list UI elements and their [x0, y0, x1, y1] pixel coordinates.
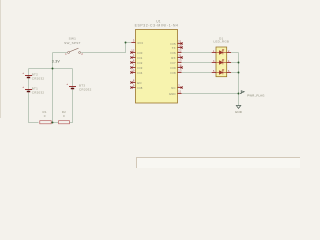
- title block corner: [137, 158, 302, 170]
- svg-text:22: 22: [178, 49, 182, 53]
- IC right pin IO5 (nc): [171, 40, 183, 46]
- svg-text:IO1: IO1: [137, 56, 142, 60]
- node junction at 3V3 corner: [125, 42, 127, 44]
- svg-text:IO4: IO4: [137, 71, 142, 75]
- svg-text:IO7: IO7: [171, 61, 176, 65]
- svg-text:8: 8: [133, 79, 135, 83]
- IC left pin IO3 (nc): [130, 64, 142, 70]
- power flag PF1: [240, 91, 265, 98]
- LED green element: [216, 59, 227, 64]
- svg-text:EN: EN: [137, 81, 141, 85]
- sheet background: [0, 0, 300, 168]
- svg-text:18: 18: [178, 64, 182, 68]
- svg-text:31: 31: [178, 54, 182, 58]
- node junction middle rail: [52, 68, 54, 70]
- wire corner down to switch row: [81, 43, 125, 53]
- wire switch left to 3.3V rail corner: [53, 52, 68, 54]
- IC right pin IO6: [171, 49, 182, 55]
- IC right pin TX (nc): [172, 44, 183, 50]
- svg-text:IO9: IO9: [171, 66, 176, 70]
- LED pin stubs left: [212, 53, 216, 73]
- wire bottom middle segment: [51, 122, 58, 124]
- svg-text:0: 0: [63, 114, 65, 118]
- svg-text:SW1: SW1: [69, 37, 76, 41]
- wire IC IO6 to LED pin1: [182, 52, 212, 54]
- wire LED pin6 to vertical: [231, 72, 239, 74]
- svg-text:RX: RX: [171, 56, 175, 60]
- svg-text:+: +: [66, 82, 68, 86]
- IC left pin IO0 (nc): [130, 49, 142, 55]
- node junction LED G: [238, 62, 240, 64]
- node junction bottom: [52, 122, 54, 124]
- battery BT3: [66, 82, 76, 89]
- resistor R1: [40, 121, 51, 124]
- svg-text:NC: NC: [171, 86, 176, 90]
- IC right pin IO7: [171, 59, 182, 65]
- svg-text:IO0: IO0: [137, 51, 142, 55]
- IC left pin EN (nc): [130, 79, 141, 85]
- wire 3.3V middle vertical: [52, 53, 54, 123]
- svg-text:+: +: [22, 85, 24, 89]
- svg-text:+: +: [22, 71, 24, 75]
- wire IC IO7 to LED pin3: [182, 62, 212, 64]
- svg-text:SW_SPST: SW_SPST: [64, 41, 81, 45]
- svg-text:ESP32-C3-MINI-1-N4: ESP32-C3-MINI-1-N4: [135, 24, 179, 28]
- svg-text:23: 23: [178, 59, 182, 63]
- wire 3V3 pin to corner: [126, 42, 132, 44]
- IC U1 body: [136, 30, 178, 104]
- IC left pin IO2 (nc): [130, 59, 142, 65]
- svg-text:PWR_FLAG: PWR_FLAG: [247, 93, 264, 97]
- svg-text:6: 6: [133, 59, 135, 63]
- svg-text:0: 0: [44, 114, 46, 118]
- svg-text:IO3: IO3: [137, 66, 142, 70]
- wire IC GND pin to vertical: [182, 93, 239, 95]
- svg-text:GND: GND: [235, 110, 242, 114]
- node junction LED B: [238, 72, 240, 74]
- IC right pin NC (nc): [171, 84, 183, 90]
- LED red element: [216, 49, 227, 54]
- sheet left border: [0, 0, 2, 118]
- wire LED common vertical to GND: [238, 53, 240, 106]
- svg-text:13: 13: [178, 69, 182, 73]
- resistor R2: [59, 121, 70, 124]
- wire IC IO8 to LED pin5: [182, 72, 212, 74]
- svg-text:9: 9: [133, 84, 135, 88]
- wire horizontal rail: [29, 68, 73, 70]
- wire LED pin4 to vertical: [231, 62, 239, 64]
- ground symbol: [235, 106, 242, 115]
- svg-text:5: 5: [133, 54, 135, 58]
- wire LED pin2 to vertical: [231, 52, 239, 54]
- wire bottom right segment to BT3 branch: [70, 69, 73, 123]
- IC left pin IO1 (nc): [130, 54, 142, 60]
- svg-text:IO6: IO6: [171, 51, 176, 55]
- svg-text:CR2032: CR2032: [32, 77, 45, 81]
- IC left pin IO4 (nc): [130, 69, 142, 75]
- battery BT2: [22, 71, 32, 78]
- svg-text:CR2032: CR2032: [32, 91, 45, 95]
- svg-text:TX: TX: [172, 46, 176, 50]
- wire left battery rail: [29, 69, 39, 123]
- IC left pin IO8 (nc): [130, 84, 142, 90]
- switch SW1: [68, 48, 81, 53]
- LED module D1 body: [216, 47, 227, 77]
- LED pin stubs right: [227, 53, 231, 73]
- svg-text:GND: GND: [169, 92, 176, 96]
- IC right pin IO9 (nc): [171, 64, 183, 70]
- battery BT1: [22, 85, 32, 92]
- svg-text:30: 30: [178, 44, 182, 48]
- IC left pin 3V3: [131, 39, 143, 45]
- svg-text:3: 3: [133, 39, 135, 43]
- svg-text:CR2032: CR2032: [79, 88, 92, 92]
- LED blue element: [216, 69, 227, 74]
- svg-text:12: 12: [131, 49, 135, 53]
- IC right pin IO8b: [171, 69, 182, 75]
- svg-text:21: 21: [178, 40, 182, 44]
- svg-text:10: 10: [131, 69, 135, 73]
- svg-text:LED_RGB: LED_RGB: [213, 40, 229, 44]
- svg-text:IO8: IO8: [137, 86, 142, 90]
- IC right pin GND: [169, 90, 182, 96]
- svg-text:3V3: 3V3: [137, 41, 143, 45]
- LED pin numbers: [213, 50, 230, 73]
- svg-text:2: 2: [178, 84, 180, 88]
- svg-text:7: 7: [133, 64, 135, 68]
- IC right pin RX (nc): [171, 54, 182, 60]
- svg-text:3.3V: 3.3V: [52, 60, 61, 64]
- svg-text:IO2: IO2: [137, 61, 142, 65]
- svg-text:11: 11: [178, 90, 181, 94]
- svg-text:IO8: IO8: [171, 71, 176, 75]
- node junction GND tee: [238, 93, 240, 95]
